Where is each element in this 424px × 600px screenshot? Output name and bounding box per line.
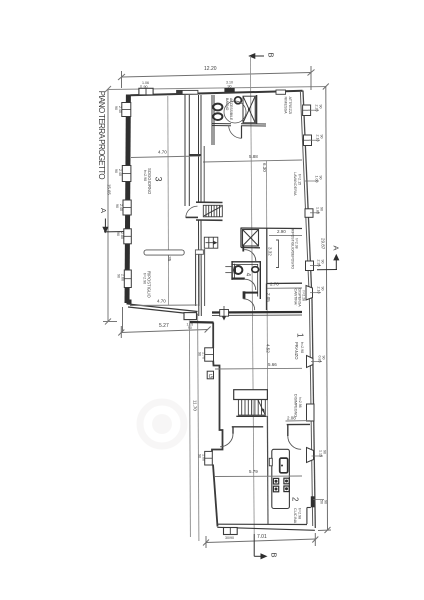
- corridor right wall (lower): [204, 249, 206, 306]
- svg-text:h=2.90: h=2.90: [143, 273, 147, 284]
- dimension line 5.79: [215, 475, 302, 478]
- lower-left building wall: [212, 323, 223, 527]
- left wall window w2 + label: [115, 200, 131, 215]
- svg-text:29.87: 29.87: [321, 238, 326, 250]
- window block lower-left w/ label: [205, 348, 214, 361]
- svg-text:2.20: 2.20: [315, 105, 319, 112]
- burners: [273, 478, 289, 492]
- right wall trapezoid window 2.10: [306, 286, 325, 301]
- svg-text:1.85: 1.85: [316, 207, 320, 214]
- svg-text:CUCINA: CUCINA: [293, 508, 298, 524]
- door arc room 3: [186, 206, 198, 218]
- shaft X-box: [243, 230, 259, 247]
- bathroom door arc: [229, 126, 242, 139]
- small stair lower corridor: [204, 237, 218, 248]
- room 3 interior dimension line: [167, 96, 170, 305]
- washbasin: [235, 97, 242, 104]
- disimpegno wall right w/ door arc: [287, 423, 310, 425]
- bottom pillar block w/ label: [224, 528, 238, 535]
- svg-text:6.30: 6.30: [262, 163, 267, 172]
- wall above shaft row: [241, 227, 303, 230]
- svg-text:h=2.98: h=2.98: [298, 508, 302, 519]
- bracket line: [276, 240, 279, 268]
- svg-text:90: 90: [321, 260, 325, 264]
- dimension line 4.70 (room 3 top): [131, 156, 200, 158]
- pillar at end of slanted wall: [184, 313, 197, 320]
- right dimension line 29.87: [318, 84, 331, 534]
- corridor wall left w/ door arc: [232, 426, 263, 428]
- watermark: [140, 402, 184, 446]
- transition wall upper/lower: [212, 311, 302, 314]
- stairs (lower, big): [238, 400, 265, 416]
- bathroom top-left: left wall: [211, 95, 213, 145]
- cantina/dispensa label: [294, 289, 306, 308]
- left wall window w3 + label: [116, 229, 131, 244]
- G-box gas meter: [207, 371, 213, 379]
- svg-text:h=2.28: h=2.28: [302, 291, 306, 302]
- top connector line: [108, 87, 326, 90]
- wall lintel over room3 door: [189, 154, 201, 156]
- svg-text:1.15: 1.15: [319, 450, 323, 457]
- svg-text:A: A: [332, 246, 341, 251]
- svg-text:15.65: 15.65: [106, 184, 111, 195]
- svg-text:2: 2: [291, 497, 300, 502]
- svg-text:90: 90: [319, 176, 323, 180]
- svg-text:5.27: 5.27: [159, 323, 169, 329]
- svg-text:ATTREZZI: ATTREZZI: [288, 97, 292, 115]
- svg-text:A: A: [99, 208, 108, 213]
- svg-text:DISPENSA: DISPENSA: [298, 289, 302, 308]
- dimension line 5.66: [215, 367, 302, 370]
- svg-text:90: 90: [144, 85, 148, 89]
- door notch w/ arrow: [220, 310, 229, 317]
- bidet: [213, 113, 222, 120]
- right wall window 2.35/90: [306, 260, 325, 271]
- svg-text:RIPOSTIGLIO/DEPOSITO: RIPOSTIGLIO/DEPOSITO: [291, 229, 295, 269]
- bidet bath4: [252, 267, 259, 273]
- outer wall: bottom of upper-left part (slanted): [128, 304, 198, 312]
- bottom dimension line 7.01: [203, 533, 318, 548]
- room 3 shelf: [144, 250, 184, 255]
- right wall black block 50/90: [311, 496, 328, 507]
- kitchen right wall step: [307, 507, 311, 509]
- room 3 right wall (upper): [184, 95, 186, 206]
- svg-text:4.70: 4.70: [158, 150, 167, 155]
- right wall window 1.85/90: [305, 207, 324, 217]
- svg-text:5.79: 5.79: [249, 469, 258, 474]
- dimension line 2.70: [266, 287, 302, 289]
- outer wall: right (full height, slight lean): [303, 91, 312, 301]
- top wall window (rimessa): [276, 90, 286, 94]
- shower right wall: [256, 95, 258, 124]
- svg-text:4.70: 4.70: [157, 299, 166, 304]
- door arc bath4 bottom: [243, 299, 254, 310]
- svg-text:90: 90: [188, 326, 192, 330]
- stairs (upper corridor): [203, 205, 222, 217]
- svg-text:90: 90: [322, 356, 326, 360]
- svg-text:PIANO TERRA PROGETTO: PIANO TERRA PROGETTO: [97, 91, 106, 180]
- svg-text:90: 90: [117, 274, 121, 278]
- stair hall left wall: [198, 95, 200, 202]
- svg-text:2.08: 2.08: [287, 416, 296, 421]
- svg-text:B: B: [270, 553, 279, 558]
- vestibule jamb bath4: [243, 291, 246, 298]
- svg-text:1.00: 1.00: [315, 176, 319, 183]
- svg-text:1: 1: [296, 333, 305, 338]
- left wall window w1 + label 2.40/90: [114, 103, 131, 117]
- left wall window w1b + label: [114, 166, 131, 182]
- bathroom bottom wall: [212, 123, 232, 125]
- storage label lower-left room: [143, 271, 152, 299]
- door arc bath4 mid: [245, 279, 256, 290]
- disimpegno label: [294, 394, 303, 417]
- svg-text:90: 90: [115, 204, 119, 208]
- svg-text:50: 50: [320, 500, 324, 504]
- svg-text:3: 3: [154, 177, 164, 182]
- wall between ripostiglio and cantina: [267, 282, 303, 284]
- svg-text:90: 90: [320, 135, 324, 139]
- svg-text:PRANZO: PRANZO: [294, 342, 299, 360]
- svg-text:90: 90: [228, 85, 232, 89]
- svg-text:DISIMPEGNO: DISIMPEGNO: [294, 394, 298, 417]
- svg-text:2.10: 2.10: [317, 287, 321, 294]
- dimension line 4.70 (room 3 bottom): [130, 304, 198, 307]
- svg-text:2.35: 2.35: [317, 260, 321, 267]
- top wall black pillar w/ label: [224, 88, 234, 92]
- svg-text:90: 90: [319, 105, 323, 109]
- WC bath4: [234, 266, 242, 274]
- wall under stairs: [236, 415, 266, 417]
- svg-text:5.66: 5.66: [268, 362, 277, 367]
- svg-text:LAVANDERIA: LAVANDERIA: [293, 172, 297, 196]
- window block lower-left 2 w/ label: [205, 451, 213, 465]
- top wall window (stair hall): [177, 90, 198, 94]
- svg-text:90: 90: [114, 106, 118, 110]
- svg-text:h=2.98: h=2.98: [300, 342, 304, 353]
- pranzo label: [294, 333, 305, 360]
- wheelchair circle: [224, 101, 246, 123]
- small stair arrow: [206, 242, 216, 244]
- counter tap bump: [269, 458, 272, 466]
- section line B-B: [250, 56, 254, 534]
- section marker B bottom: [254, 534, 266, 559]
- top wall pillar block 1 w/ label: [139, 88, 153, 95]
- svg-text:B: B: [267, 53, 276, 58]
- lower-left dimension line 5.27: [118, 307, 210, 338]
- landing rect above stairs (lower): [234, 390, 268, 400]
- svg-text:2.10: 2.10: [316, 135, 320, 142]
- lavanderia label: [293, 172, 302, 196]
- svg-text:90: 90: [323, 450, 327, 454]
- svg-text:4.52: 4.52: [266, 344, 271, 353]
- svg-text:RIMESSA: RIMESSA: [284, 97, 288, 115]
- WC: [213, 104, 222, 111]
- svg-text:12.20: 12.20: [204, 66, 217, 72]
- svg-text:30/90: 30/90: [225, 536, 234, 540]
- right wall trapezoid window 1.15: [307, 448, 327, 463]
- svg-text:5.88: 5.88: [249, 154, 258, 159]
- second boundary line (lower section): [198, 314, 199, 542]
- wall left of shaft: [240, 228, 242, 248]
- right wall tick 1.00/90: [305, 176, 323, 183]
- outer wall: left (upper part): [127, 95, 128, 304]
- svg-text:90: 90: [114, 169, 118, 173]
- left frame dimension line 15.65: [103, 86, 117, 325]
- right wall window 2.20/90: [303, 105, 323, 116]
- svg-text:h=2.15: h=2.15: [298, 174, 302, 185]
- dimension line 5.88: [203, 160, 302, 162]
- right wall trapezoid window 0.85: [307, 356, 326, 368]
- right wall window 2.10/90: [304, 135, 324, 146]
- svg-text:h=2.98: h=2.98: [298, 397, 302, 408]
- left wall window w4 + label: [117, 270, 132, 288]
- outer wall: bottom of lower part: [218, 523, 308, 525]
- sink: [280, 458, 288, 473]
- section marker B top: [250, 54, 265, 59]
- outer wall: top: [131, 91, 303, 96]
- svg-text:CANTINA/: CANTINA/: [294, 289, 298, 306]
- dimension 2.08: [286, 420, 311, 422]
- ripostiglio/deposito label: [291, 229, 299, 269]
- svg-text:11.70: 11.70: [193, 400, 198, 411]
- door arc bath4 top: [244, 250, 256, 261]
- svg-text:G: G: [209, 374, 213, 380]
- kitchen label: [291, 497, 302, 524]
- kitchen counter: [272, 449, 290, 508]
- svg-text:90: 90: [324, 500, 328, 504]
- rimessa room label: [284, 97, 293, 115]
- svg-text:h=2.98: h=2.98: [143, 170, 147, 181]
- svg-text:3.32: 3.32: [268, 247, 273, 256]
- right wall door rect: [307, 404, 315, 421]
- shower box with X: [243, 96, 255, 123]
- corner block bottom-left of room 3: [127, 300, 132, 305]
- bathroom 4: walls (double-line box): [231, 261, 261, 299]
- left boundary thin line (lower section): [189, 321, 190, 538]
- svg-text:90: 90: [116, 232, 120, 236]
- svg-text:2.90: 2.90: [277, 229, 286, 234]
- svg-text:90: 90: [198, 352, 202, 356]
- inner line of right wall: [300, 92, 309, 300]
- interior chain dimension line (vertical): [266, 161, 268, 476]
- room 3 right wall (lower): [195, 253, 197, 307]
- top dimension line 12.20: [118, 66, 315, 90]
- svg-text:0.85: 0.85: [318, 356, 322, 363]
- shelf stub right of wall: [195, 250, 203, 254]
- kitchen wall line: [266, 416, 269, 524]
- top wall of lower section: [190, 321, 214, 324]
- walls around stairs: [196, 201, 223, 203]
- svg-text:90: 90: [198, 454, 202, 458]
- duct lines left of bath4: [225, 266, 231, 268]
- svg-text:90: 90: [320, 207, 324, 211]
- svg-text:90: 90: [321, 287, 325, 291]
- svg-text:h=2.38: h=2.38: [295, 238, 299, 249]
- svg-text:7.01: 7.01: [257, 534, 267, 540]
- wall right of corridor (ripostiglio left wall): [266, 228, 268, 283]
- dimension line 2.90: [269, 234, 302, 236]
